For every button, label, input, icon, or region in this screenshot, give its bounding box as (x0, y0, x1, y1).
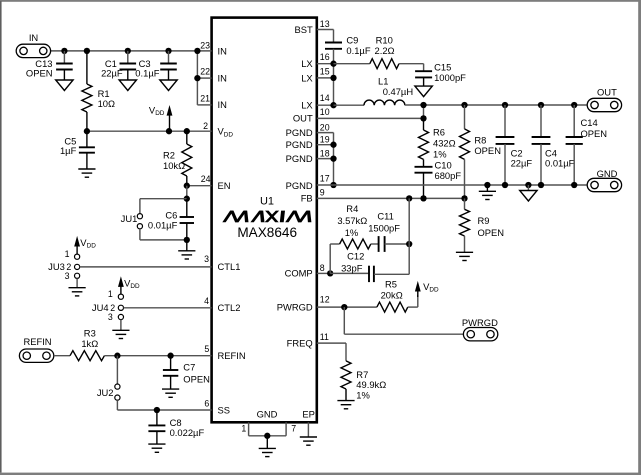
svg-text:OPEN: OPEN (478, 227, 505, 238)
wire C9 to LX node (333, 49, 335, 64)
svg-text:15: 15 (320, 66, 330, 76)
pin number 6 (204, 399, 209, 409)
capacitor C2 (496, 105, 533, 185)
svg-text:6: 6 (204, 399, 209, 409)
svg-text:1%: 1% (356, 390, 370, 401)
node OUT/C14 (571, 102, 577, 108)
svg-text:1kΩ: 1kΩ (81, 338, 98, 349)
wire C11 to FB branch node (385, 243, 410, 245)
svg-text:OUT: OUT (597, 86, 617, 97)
svg-text:R5: R5 (385, 279, 397, 290)
capacitor C7 (163, 356, 210, 389)
svg-text:R3: R3 (84, 328, 96, 339)
svg-text:10kΩ: 10kΩ (163, 160, 185, 171)
svg-text:13: 13 (320, 19, 330, 29)
svg-text:33pF: 33pF (341, 262, 363, 273)
connector REFIN (19, 336, 53, 362)
capacitor C1 (101, 51, 136, 80)
node VDD/R1/C5 (84, 128, 90, 134)
pin number 19 (320, 135, 330, 145)
node LX pin 14 (330, 102, 336, 108)
wire BST pin 13 (317, 30, 334, 43)
wire GND rail pin 17 to GND connector (317, 184, 587, 186)
ground below JU4 (112, 330, 129, 338)
node LX pin 15 (330, 75, 336, 81)
svg-text:LX: LX (301, 72, 313, 83)
wire LX pins 16 15 14 vertical (317, 64, 334, 105)
pin label IN 21 (218, 99, 227, 110)
node pin10/R6 (420, 115, 426, 121)
svg-text:DD: DD (130, 283, 140, 290)
pin label PWRGD (277, 302, 313, 313)
connector GND (587, 168, 621, 192)
inductor L1 (364, 76, 413, 106)
pin label PGND 20 (286, 127, 313, 138)
pin number 16 (320, 52, 330, 62)
reference U1 (260, 196, 274, 208)
svg-text:EN: EN (218, 180, 231, 191)
svg-text:432Ω: 432Ω (433, 138, 456, 149)
ground below C6 (178, 240, 195, 259)
svg-text:10Ω: 10Ω (98, 98, 115, 109)
svg-text:2.2Ω: 2.2Ω (375, 45, 395, 56)
capacitor C11 (368, 210, 400, 252)
svg-text:DD: DD (429, 287, 439, 294)
svg-text:MAX8646: MAX8646 (237, 225, 297, 240)
resistor R2 (163, 131, 192, 186)
pin number 8 (320, 263, 325, 273)
jumper JU3 (48, 249, 80, 288)
svg-text:0.1µF: 0.1µF (135, 68, 159, 79)
svg-text:20: 20 (320, 123, 330, 133)
resistor R1 (82, 51, 115, 131)
pin label EN (218, 180, 231, 191)
connector PWRGD (462, 317, 498, 341)
ground below R9 (456, 252, 473, 260)
node VDD arrow junction (166, 128, 172, 134)
wire FREQ pin 11 (317, 343, 346, 361)
connector OUT (587, 86, 621, 111)
svg-text:1µF: 1µF (60, 145, 77, 156)
wire REFIN rail to pin 5 (104, 355, 211, 357)
node PGND pin 17 (330, 182, 336, 188)
node IN/pin22 branch (194, 48, 200, 54)
node PGND pin 19 (330, 142, 336, 148)
power VDD arrow at JU3 (74, 236, 96, 254)
svg-text:PWRGD: PWRGD (277, 302, 313, 313)
svg-text:5: 5 (204, 344, 209, 354)
node IN/C1 (125, 48, 131, 54)
ground below C13 (56, 80, 73, 91)
svg-text:1: 1 (108, 289, 113, 299)
wire IN branch to pins 22 and 21 (197, 51, 211, 105)
svg-text:3.57kΩ: 3.57kΩ (337, 215, 367, 226)
pin label FREQ (287, 338, 313, 349)
svg-text:R4: R4 (346, 203, 358, 214)
wire LX to R10 (334, 63, 370, 65)
pin label GND bottom (257, 409, 278, 420)
ground on GND rail earth style (479, 185, 496, 200)
capacitor C8 (148, 410, 204, 444)
node OUT/C2 (502, 102, 508, 108)
svg-text:0.1µF: 0.1µF (346, 45, 370, 56)
svg-text:22: 22 (200, 67, 210, 77)
svg-text:FB: FB (301, 192, 313, 203)
capacitor C14 (566, 105, 607, 185)
pin label OUT (293, 113, 313, 124)
svg-text:OPEN: OPEN (183, 374, 210, 385)
node pin22 junction (194, 75, 200, 81)
svg-text:EP: EP (302, 409, 315, 420)
svg-text:R7: R7 (356, 369, 368, 380)
node OUT/R8 (461, 102, 467, 108)
ground below GND bracket (259, 436, 276, 457)
svg-text:14: 14 (320, 93, 330, 103)
node EN/R2 (184, 183, 190, 189)
svg-text:OPEN: OPEN (474, 145, 501, 156)
svg-text:17: 17 (320, 173, 330, 183)
node PWRGD junction (341, 304, 347, 310)
node GND bracket center (264, 433, 270, 439)
svg-text:1: 1 (241, 423, 246, 433)
pin label LX 16 (301, 58, 313, 69)
svg-text:R9: R9 (478, 215, 490, 226)
svg-text:10: 10 (320, 107, 330, 117)
wire PWRGD to connector (344, 307, 464, 334)
wire CTL1 to pin 3 (80, 266, 212, 268)
svg-text:C11: C11 (377, 210, 394, 221)
jumper JU4 (92, 289, 124, 330)
svg-text:R8: R8 (474, 135, 486, 146)
wire C12 lower branch (330, 272, 369, 274)
pin label COMP (285, 267, 313, 278)
pin number 14 (320, 93, 330, 103)
node OUT/C4 (538, 102, 544, 108)
svg-text:IN: IN (218, 99, 227, 110)
node COMP junction (327, 270, 333, 276)
svg-text:SS: SS (218, 404, 231, 415)
wire C12 to vertical riser (374, 198, 409, 274)
node GND/C2 (502, 182, 508, 188)
node C11/C12 junction (406, 241, 412, 247)
pin number 1 (241, 423, 246, 433)
svg-text:DD: DD (224, 131, 234, 138)
wire R4 to C11 (371, 243, 379, 245)
part number MAX8646 (237, 225, 297, 240)
capacitor C10 (415, 159, 462, 198)
svg-text:1500pF: 1500pF (368, 222, 400, 233)
node REFIN/JU2 (114, 353, 120, 359)
wire R10 to C15 (399, 64, 424, 71)
node FB/C10 (420, 195, 426, 201)
pin label PGND 18 (286, 153, 313, 164)
pin label FB (301, 192, 313, 203)
wire EN to C6 node (186, 186, 188, 199)
ground on GND rail triangle style (520, 185, 537, 201)
pin number 4 (204, 296, 209, 306)
pin label BST (294, 24, 313, 35)
resistor R3 (70, 328, 104, 361)
pin label REFIN (218, 350, 246, 361)
svg-text:C12: C12 (347, 251, 364, 262)
svg-text:OPEN: OPEN (26, 68, 53, 79)
svg-text:L1: L1 (378, 76, 388, 87)
capacitor C9 (325, 35, 371, 56)
pin label VDD (218, 126, 234, 139)
svg-text:7: 7 (291, 423, 296, 433)
svg-text:22µF: 22µF (101, 68, 123, 79)
node FB/R8/R9 (461, 195, 467, 201)
ground below R7 (337, 401, 354, 409)
wire IN rail to pin 23 (51, 50, 212, 52)
svg-text:GND: GND (597, 168, 618, 179)
pin label SS (218, 404, 231, 415)
resistor R7 (341, 361, 386, 401)
svg-text:4: 4 (204, 296, 209, 306)
svg-text:PGND: PGND (286, 127, 313, 138)
pin number 3 (204, 254, 209, 264)
capacitor C13 (26, 51, 73, 80)
ground below C15 (415, 86, 432, 97)
svg-text:JU2: JU2 (97, 387, 114, 398)
svg-text:16: 16 (320, 52, 330, 62)
resistor R5 (377, 279, 408, 313)
svg-text:9: 9 (320, 188, 325, 198)
capacitor C4 (532, 105, 575, 185)
svg-text:1: 1 (65, 249, 70, 259)
pin number 24 (201, 174, 211, 184)
node C6 bottom / JU1 pin2 (184, 237, 190, 243)
resistor R4 (337, 203, 370, 249)
svg-text:21: 21 (200, 94, 210, 104)
node FB/compnet (406, 195, 412, 201)
pin label CTL2 (218, 302, 241, 313)
jumper JU1 (121, 199, 187, 240)
svg-text:3: 3 (204, 254, 209, 264)
ground below C1 (119, 80, 136, 91)
svg-text:0.01µF: 0.01µF (148, 220, 178, 231)
svg-text:1%: 1% (433, 149, 447, 160)
svg-text:0.47µH: 0.47µH (383, 86, 413, 97)
pin label IN 23 (218, 45, 227, 56)
pin number 9 (320, 188, 325, 198)
pin label PGND 19 (286, 139, 313, 150)
pin number 20 (320, 123, 330, 133)
svg-text:680pF: 680pF (435, 170, 462, 181)
wire EN rail to pin 24 (187, 185, 212, 187)
svg-text:R2: R2 (163, 149, 175, 160)
ground below C7 (162, 389, 179, 397)
connector IN (16, 32, 50, 57)
svg-text:12: 12 (320, 295, 330, 305)
wire SS rail to pin 6 (117, 409, 211, 411)
pin number 5 (204, 344, 209, 354)
svg-text:0.022µF: 0.022µF (170, 427, 205, 438)
pin label CTL1 (218, 261, 241, 272)
svg-text:C10: C10 (435, 159, 452, 170)
svg-text:20kΩ: 20kΩ (381, 289, 403, 300)
wire PGND pins 20 19 18 17 vertical (317, 133, 334, 185)
ground below C3 (160, 80, 177, 91)
ground below C5 (78, 169, 95, 177)
pin number 23 (200, 40, 210, 50)
jumper JU2 (97, 356, 120, 410)
wire REFIN to R3 (54, 355, 70, 357)
svg-text:DD: DD (155, 110, 165, 117)
svg-text:OPEN: OPEN (581, 128, 608, 139)
capacitor C12 (341, 251, 374, 283)
wire FB rail pin 9 (317, 197, 465, 199)
svg-text:19: 19 (320, 135, 330, 145)
pin number 15 (320, 66, 330, 76)
svg-text:LX: LX (301, 58, 313, 69)
svg-text:FREQ: FREQ (287, 338, 313, 349)
ground below JU3 (69, 288, 86, 296)
svg-text:COMP: COMP (285, 267, 313, 278)
pin number 11 (320, 332, 329, 342)
svg-text:C7: C7 (183, 362, 195, 373)
node C6 top / JU1 pin1 (184, 196, 190, 202)
svg-text:PWRGD: PWRGD (462, 317, 498, 328)
svg-text:U1: U1 (260, 196, 274, 208)
svg-text:JU4: JU4 (92, 302, 109, 313)
pin number 21 (200, 94, 210, 104)
wire R5 to VDD (408, 295, 418, 307)
svg-text:3: 3 (65, 271, 70, 281)
node GND/C14 (571, 182, 577, 188)
svg-text:REFIN: REFIN (23, 336, 51, 347)
resistor R9 (460, 198, 505, 252)
resistor R8 (460, 105, 501, 198)
ground at EP pad (300, 422, 317, 445)
node IN/C3 (165, 48, 171, 54)
wire PWRGD pin 12 (317, 306, 377, 308)
ground below C8 (148, 444, 165, 452)
svg-text:2: 2 (203, 121, 208, 131)
svg-text:0.01µF: 0.01µF (545, 158, 575, 169)
svg-text:DD: DD (87, 243, 97, 250)
svg-text:IN: IN (218, 72, 227, 83)
wire OUT pin 10 (317, 105, 424, 118)
pin number 7 (291, 423, 296, 433)
wire LX to L1 (334, 104, 365, 106)
svg-text:PGND: PGND (286, 153, 313, 164)
node IN/R1 (84, 48, 90, 54)
svg-text:22µF: 22µF (511, 158, 533, 169)
pin label EP (302, 409, 315, 420)
svg-text:R6: R6 (433, 127, 445, 138)
pin label LX 15 (301, 72, 313, 83)
node VDD/R2 (184, 128, 190, 134)
pin number 2 (203, 121, 208, 131)
svg-text:3: 3 (108, 312, 113, 322)
power VDD arrow at R5 (415, 281, 439, 297)
svg-text:PGND: PGND (286, 139, 313, 150)
svg-text:PGND: PGND (286, 180, 313, 191)
node GND/triangle (525, 182, 531, 188)
svg-text:C15: C15 (434, 61, 451, 72)
svg-text:1000pF: 1000pF (434, 72, 466, 83)
node REFIN/C7 (167, 353, 173, 359)
node LX pin 16 (330, 61, 336, 67)
svg-text:8: 8 (320, 263, 325, 273)
svg-text:BST: BST (294, 24, 313, 35)
wire OUT rail (405, 104, 587, 106)
node GND/C4 (538, 182, 544, 188)
svg-text:REFIN: REFIN (218, 350, 246, 361)
svg-text:24: 24 (201, 174, 211, 184)
pin label LX 14 (301, 99, 313, 110)
resistor R6 (419, 118, 456, 166)
MAXIM logo (222, 211, 311, 223)
op-amp U1 MAX8646 IC body (212, 18, 317, 423)
svg-text:JU1: JU1 (121, 213, 138, 224)
svg-text:1%: 1% (345, 227, 359, 238)
svg-text:IN: IN (218, 45, 227, 56)
resistor R10 (370, 35, 399, 69)
wire COMP pin 8 (317, 272, 330, 274)
pin number 17 (320, 173, 330, 183)
svg-text:CTL2: CTL2 (218, 302, 241, 313)
pin number 22 (200, 67, 210, 77)
svg-text:11: 11 (320, 332, 329, 342)
power VDD arrow at pin 2 rail (149, 104, 173, 131)
capacitor C5 (60, 131, 95, 169)
svg-text:IN: IN (29, 32, 38, 43)
pin number 10 (320, 107, 330, 117)
capacitor C6 (148, 199, 194, 240)
wire VDD rail to pin 2 (87, 130, 212, 132)
svg-text:C14: C14 (581, 117, 598, 128)
pin number 12 (320, 295, 330, 305)
svg-text:JU3: JU3 (48, 261, 65, 272)
node PGND pin 18 (330, 155, 336, 161)
node SS/C8 (154, 407, 160, 413)
svg-text:OUT: OUT (293, 113, 313, 124)
pin label IN 22 (218, 72, 227, 83)
svg-text:23: 23 (200, 40, 210, 50)
svg-text:LX: LX (301, 99, 313, 110)
svg-text:GND: GND (257, 409, 278, 420)
node OUT/L1/R6 (420, 102, 426, 108)
pin label PGND 17 (286, 180, 313, 191)
pin number 18 (320, 148, 330, 158)
svg-text:18: 18 (320, 148, 330, 158)
node GND/earth (484, 182, 490, 188)
pin number 13 (320, 19, 330, 29)
capacitor C15 (415, 61, 466, 86)
wire COMP up branch (330, 244, 339, 273)
wire CTL2 to pin 4 (124, 307, 212, 309)
wire GND pins 1 and 7 bracket (249, 422, 287, 436)
svg-text:CTL1: CTL1 (218, 261, 241, 272)
power VDD arrow at JU4 (118, 276, 140, 294)
node IN/C13 (61, 48, 67, 54)
capacitor C3 (135, 51, 177, 80)
